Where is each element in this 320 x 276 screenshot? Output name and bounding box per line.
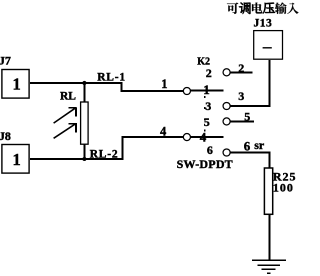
svg-text:J7: J7 [0, 54, 11, 68]
svg-text:4: 4 [200, 130, 207, 145]
photoresistor RL [54, 83, 89, 159]
svg-text:J8: J8 [0, 129, 11, 143]
wire R25 to ground [269, 214, 271, 260]
resistor R25 [264, 168, 296, 214]
svg-text:RL-1: RL-1 [97, 72, 126, 84]
net label 2 [238, 61, 244, 75]
svg-text:100: 100 [273, 180, 294, 194]
pin 5 stub [230, 120, 254, 122]
svg-text:5: 5 [244, 109, 250, 123]
pole 4 contact [183, 134, 190, 141]
wire K2 pin 6 to R25 [230, 153, 269, 168]
svg-text:sr: sr [254, 138, 265, 152]
pole 1 contact [183, 87, 190, 94]
switch K2 [177, 57, 233, 171]
net label RL-2 [90, 149, 119, 161]
svg-text:RL: RL [60, 91, 76, 103]
lever pole 1 [191, 89, 224, 91]
wire J13 to K2 pin 3 [230, 60, 269, 106]
wire 1: J7 to K2 pin 1 [30, 83, 184, 91]
connector J13 [254, 18, 283, 60]
svg-text:6: 6 [244, 138, 251, 153]
throw 3 contact [223, 102, 230, 109]
connector J8 [0, 129, 29, 173]
net label 6 sr [244, 138, 265, 154]
svg-text:6: 6 [207, 143, 213, 157]
lever pole 4 [191, 136, 224, 138]
throw 6 contact [223, 149, 230, 156]
svg-text:SW-DPDT: SW-DPDT [177, 157, 233, 171]
junction node A [82, 81, 86, 85]
wire 4: J8 to K2 pin 4 [30, 137, 184, 159]
net label 3 [238, 89, 244, 103]
svg-text:2: 2 [206, 66, 212, 80]
net label 4 [160, 124, 167, 138]
throw 2 contact [223, 69, 230, 76]
pin 2 stub [230, 71, 252, 73]
svg-text:3: 3 [205, 99, 211, 113]
svg-text:1: 1 [161, 77, 167, 91]
svg-text:J13: J13 [254, 18, 273, 30]
net label RL-1 [97, 72, 126, 84]
svg-text:1: 1 [13, 75, 21, 94]
svg-text:1: 1 [203, 82, 210, 97]
svg-text:2: 2 [238, 61, 244, 75]
svg-text:1: 1 [13, 150, 21, 169]
net label 5 [244, 109, 250, 123]
linkage dashed [204, 96, 206, 135]
svg-text:4: 4 [160, 124, 167, 138]
title net 可调电压输入 [227, 2, 299, 13]
connector J7 [0, 54, 29, 99]
net label 1 [161, 77, 167, 91]
svg-text:3: 3 [238, 89, 244, 103]
svg-text:5: 5 [204, 115, 210, 129]
ground [252, 260, 286, 273]
throw 5 contact [223, 118, 230, 125]
junction node B [82, 157, 86, 161]
